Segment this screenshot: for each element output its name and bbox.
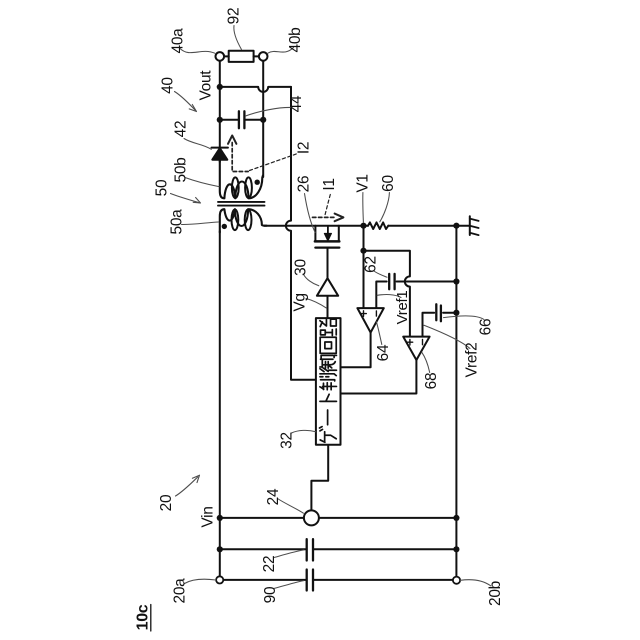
polarity dot 50b [255,180,260,185]
wire: gate control box bottom to node 24 [311,445,328,511]
svg-text:40: 40 [160,77,177,94]
cap 22 rail [220,548,457,550]
leader 20a [185,579,216,583]
svg-text:50: 50 [154,179,171,196]
transformer core [218,202,265,206]
svg-text:50a: 50a [169,209,186,235]
wire: MOSFET gate lead to amp 30 [327,248,329,279]
node 24 circle [304,510,319,525]
dashed current arrow I2 [228,136,298,172]
terminal 20b [453,577,460,584]
junction: ground node [453,223,459,229]
dashed current arrow I1 [313,195,344,222]
leader 40b [268,48,294,54]
svg-text:66: 66 [478,319,495,336]
glyph ge (katakana) [319,427,336,443]
wire: comparator 64 output to gate control box [341,333,371,368]
MOSFET body arrow [327,226,329,235]
svg-text:42: 42 [173,121,190,138]
leader 32 [292,430,316,433]
leader 60 [380,193,390,222]
wire: V1 node down to node V1' [363,226,365,251]
figure arrow 40 [175,92,197,112]
wire: amp 30 output to gate control box top [327,296,329,318]
glyph kai (box) [320,337,336,353]
leader Vg [306,299,327,309]
ground symbol [469,216,471,235]
leader 44 [246,107,293,116]
gate control circuit text (drawn kanji) [319,319,336,442]
svg-text:20: 20 [158,494,175,511]
leader lines [180,26,491,589]
wire: comparator 64 - input up and right to cap 62 [376,282,386,309]
leader 90 [274,581,304,589]
leader 42 [184,139,211,150]
polarity dot 50a [222,224,227,229]
resistor 60 zigzag [368,222,388,229]
leader 64 [376,322,381,345]
svg-text:V1: V1 [354,174,371,192]
wire: primary exit to MOSFET rail and to ground, y=225.7 [264,225,368,227]
junction: node Vout [217,84,223,90]
svg-text:24: 24 [265,488,282,505]
capacitor 62 [389,274,394,289]
svg-text:60: 60 [380,175,397,192]
leader 66 [444,316,485,320]
wire: V1' down to comparator 64 + input [363,251,365,308]
capacitor 44 [220,119,263,121]
svg-text:40a: 40a [170,28,187,54]
transformer winding 50a [220,209,267,232]
amp 30 (gate driver) [317,278,338,296]
wire: cap44 right node down to winding 50b exit [262,120,264,177]
ground stub [456,225,469,227]
gate control box 32 [316,318,341,445]
junction: cap 44 right [260,117,266,123]
wire: 40b lead down to cap 44 right node [262,61,264,120]
terminal 40b [259,52,268,61]
leader Vref1 [377,295,401,298]
wire: resistor 60 to ground node [388,225,456,227]
terminal 20a [216,576,223,583]
Vin rail [220,517,457,519]
bottom rail 20a-20b [223,579,453,581]
svg-text:22: 22 [261,556,278,573]
leader 40a [180,49,215,54]
glyph ro (path) [320,319,336,335]
capacitor 66 [436,304,441,321]
glyph long vowel bar [327,410,329,425]
svg-text:10c: 10c [135,604,152,630]
junction: comparator input branch [360,248,366,254]
MOSFET 26 [315,226,338,242]
svg-text:64: 64 [375,344,392,361]
comparator 64 [357,308,383,332]
junction: cap 44 left [217,117,223,123]
figure arrow 20 [176,475,200,496]
wire: V1' right, corner, down with hop, to comparator 68 + input [364,251,410,337]
cap 66 right lead to right rail [443,312,456,314]
svg-text:Vout: Vout [198,70,215,101]
leader 22 [274,550,304,558]
terminal 40a [216,52,225,61]
leader 30 [304,275,319,286]
capacitor 22 [307,539,313,560]
figure arrow 50 [171,194,201,204]
leader 62 [374,271,387,277]
svg-text:20a: 20a [172,578,189,604]
leader 68 [422,352,430,372]
svg-text:90: 90 [262,586,279,603]
wire: comparator 68 output to gate control box [341,360,417,394]
svg-text:68: 68 [423,373,440,390]
leader 50b [185,178,219,187]
junction: Vin rail left [217,515,223,521]
comparator 68 [403,337,429,360]
diode 42 [212,147,228,149]
leader 20b [460,580,491,586]
svg-text:62: 62 [363,256,380,273]
leader V1 [362,193,365,223]
svg-text:40b: 40b [287,28,304,53]
left rail x=219.8 from winding 50a down to terminal 20a [219,231,221,576]
svg-text:20b: 20b [487,581,504,606]
right rail x=456.4 down to terminal 20b [455,226,457,577]
svg-text:50b: 50b [173,158,190,183]
svg-text:32: 32 [279,432,296,449]
svg-text:30: 30 [293,259,310,276]
transformer winding 50b [220,161,263,199]
wire: cap44 node down to diode cathode [219,120,221,148]
junction: node V1 [360,223,366,229]
capacitor 90 [307,570,313,591]
svg-text:Vg: Vg [292,293,309,311]
svg-text:Vref1: Vref1 [394,291,411,325]
svg-text:Vin: Vin [200,506,217,527]
glyph to (katakana) [320,394,337,401]
wire: Vout node down to cap 44 node [219,87,221,120]
junction: cap 22 rail right [453,546,459,552]
leader 92 [234,26,242,50]
leader 26 [305,194,316,233]
leader 50a [182,222,219,225]
junction: cap 62 to rail [453,278,459,284]
leader 24 [278,499,304,514]
leader Vref2 [424,325,470,348]
wire: Vout feedback horizontal with hop over x=263 [220,87,291,92]
junction: Vin rail right [453,515,459,521]
glyph sei (complex) [320,374,337,390]
svg-text:26: 26 [296,176,313,193]
wire: 40a lead down to Vout node [219,61,221,87]
wire: feedback vertical x=291 with hop at y=225.7, down to gate control box [286,87,316,380]
wire: diode anode down to winding 50b entry [219,160,221,163]
resistor 92 [229,51,254,62]
svg-text:92: 92 [226,8,243,25]
svg-text:Vref2: Vref2 [463,343,480,378]
svg-text:I2: I2 [296,142,313,154]
wire: comparator 68 - input up and right to cap 66 [423,313,435,337]
svg-text:44: 44 [288,95,305,112]
cap 62 right lead to right rail [397,281,457,283]
comparator 64 and 68 polarity marks [361,311,423,345]
svg-text:I1: I1 [321,178,338,190]
junction: cap 66 to rail [453,310,459,316]
junction: cap 22 rail left [217,546,223,552]
glyph go (complex) [320,355,337,371]
